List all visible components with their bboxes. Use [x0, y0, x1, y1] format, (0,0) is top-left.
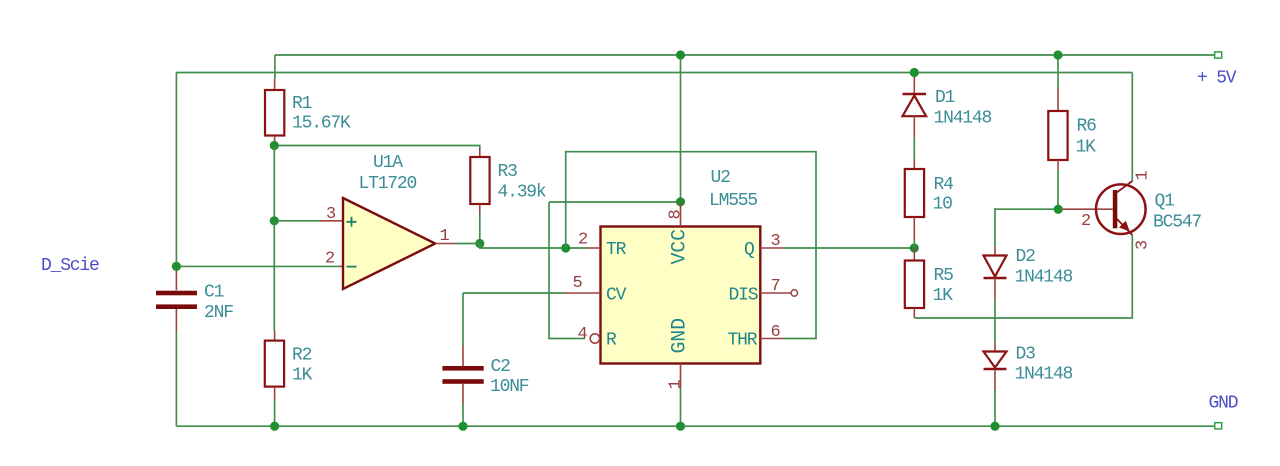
wire left column: [175, 73, 177, 267]
svg-text:LM555: LM555: [709, 191, 757, 211]
svg-text:1N4148: 1N4148: [1015, 267, 1073, 287]
junction VCC node: [676, 197, 685, 206]
junction top rail VCC: [676, 50, 685, 59]
svg-text:1K: 1K: [292, 366, 313, 386]
resistor R3: [470, 149, 489, 215]
wire Q row: [784, 247, 915, 249]
transistor Q1: [1096, 181, 1146, 235]
svg-text:LT1720: LT1720: [359, 174, 417, 194]
junction D1 rail: [910, 68, 919, 77]
pin 1 GND stub: [680, 364, 682, 389]
wire R4 to Q node: [913, 240, 915, 249]
pin 2 TR stub: [587, 247, 601, 249]
svg-text:D2: D2: [1016, 247, 1036, 267]
capacitor C2: [442, 293, 483, 426]
diode D3: [984, 343, 1007, 390]
wire output to TR: [456, 244, 587, 249]
wire base row: [995, 208, 1058, 210]
wire GND bottom rail: [176, 425, 1214, 427]
wire emitter row: [914, 235, 1132, 318]
wire second rail: [176, 72, 1132, 74]
svg-text:U2: U2: [711, 168, 731, 188]
pin base stub: [1058, 208, 1113, 210]
svg-text:10: 10: [933, 195, 953, 215]
svg-text:R1: R1: [292, 94, 312, 114]
capacitor C1: [156, 266, 197, 331]
svg-text:1K: 1K: [1076, 138, 1097, 158]
svg-text:D_Scie: D_Scie: [41, 256, 99, 276]
wire minus row: [176, 265, 339, 267]
junction R2 bottom: [270, 422, 279, 431]
svg-text:R6: R6: [1077, 117, 1097, 137]
svg-text:3: 3: [326, 205, 336, 224]
svg-text:D1: D1: [935, 88, 955, 108]
svg-text:+ 5V: + 5V: [1197, 69, 1237, 89]
svg-text:10NF: 10NF: [490, 377, 529, 397]
wire +5V top rail: [275, 54, 1215, 56]
wire reset-to-VCC row: [549, 201, 681, 203]
wire middle column to R2: [273, 221, 275, 331]
wire R2 bottom: [274, 400, 276, 426]
junction plus tap: [270, 216, 279, 225]
diode D1: [903, 73, 927, 138]
resistor R5: [905, 248, 924, 318]
wire D1 to R4: [913, 137, 915, 160]
svg-text:1: 1: [440, 227, 450, 246]
junction GND rail: [676, 422, 685, 431]
svg-text:R3: R3: [498, 162, 518, 182]
wire D3 to GND rail: [994, 390, 996, 426]
resistor R2: [265, 331, 284, 401]
wire end square GND: [1215, 423, 1222, 429]
svg-text:1N4148: 1N4148: [1015, 365, 1073, 385]
svg-text:R4: R4: [934, 175, 954, 195]
resistor R4: [905, 160, 924, 240]
wire R3 bottom to output node: [479, 214, 481, 244]
wire CV row: [463, 292, 564, 294]
wire plus row: [274, 220, 320, 222]
wire D2 column from base row: [994, 208, 996, 246]
svg-text:5: 5: [573, 274, 583, 293]
wire left column below C1: [175, 331, 177, 426]
svg-text:1: 1: [1134, 171, 1153, 181]
svg-text:2: 2: [1081, 212, 1090, 231]
junction R6 rail: [1053, 50, 1062, 59]
svg-text:GND: GND: [669, 318, 692, 353]
svg-text:15.67K: 15.67K: [292, 114, 351, 134]
svg-text:D3: D3: [1016, 345, 1036, 365]
svg-text:1N4148: 1N4148: [934, 109, 992, 129]
svg-text:THR: THR: [728, 331, 758, 351]
wire TR-THR feedback loop: [566, 152, 816, 339]
junction minus row: [172, 262, 181, 271]
svg-text:1K: 1K: [933, 286, 954, 306]
svg-text:2: 2: [578, 231, 587, 250]
junction TR node: [561, 243, 570, 252]
svg-text:2: 2: [325, 250, 334, 269]
IC U2 LM555: [601, 227, 761, 364]
wire middle column plus tap: [273, 146, 275, 221]
svg-text:BC547: BC547: [1153, 213, 1201, 233]
resistor R6: [1048, 89, 1067, 171]
wire R6 bottom to base row: [1057, 170, 1059, 209]
svg-text:VCC: VCC: [669, 229, 692, 265]
wire GND pin to rail: [680, 388, 682, 426]
junction R1 bottom: [270, 141, 279, 150]
svg-text:2NF: 2NF: [204, 303, 233, 323]
wire R1 node row to R3: [274, 146, 480, 149]
svg-text:CV: CV: [606, 286, 627, 306]
svg-text:TR: TR: [606, 240, 627, 260]
svg-text:C1: C1: [204, 283, 224, 303]
pin 3 Q stub: [760, 247, 783, 249]
pin 7 DIS stub: [760, 290, 797, 296]
svg-text:1: 1: [667, 380, 686, 390]
wire R1 top from rail: [274, 55, 276, 79]
junction output node: [475, 239, 484, 248]
junction C2 GND rail: [458, 422, 467, 431]
wire collector column: [1131, 73, 1133, 182]
plus pin name: [347, 217, 357, 227]
svg-text:R2: R2: [292, 346, 312, 366]
pin 6 THR stub: [760, 338, 783, 340]
junction base row: [1054, 205, 1063, 214]
svg-text:GND: GND: [1209, 394, 1238, 414]
svg-text:C2: C2: [491, 357, 511, 377]
wire R6 top from rail: [1057, 55, 1059, 89]
junction Q node: [910, 243, 919, 252]
svg-text:Q: Q: [744, 240, 754, 260]
svg-text:4.39k: 4.39k: [498, 183, 546, 203]
svg-text:U1A: U1A: [373, 153, 403, 173]
pin 8 VCC stub: [680, 202, 682, 227]
wire end square +5V: [1215, 52, 1222, 58]
pin 4 R stub with bubble: [574, 334, 600, 343]
svg-text:R: R: [606, 331, 617, 351]
pin 5 CV stub: [564, 292, 601, 294]
junction D3 GND rail: [990, 422, 999, 431]
wire reset column: [549, 202, 574, 339]
diode D2: [984, 246, 1007, 299]
svg-text:3: 3: [771, 232, 781, 251]
svg-text:8: 8: [667, 210, 686, 220]
svg-text:4: 4: [578, 325, 588, 344]
resistor R1: [265, 79, 284, 146]
op-amp U1A: [320, 198, 456, 289]
svg-text:Q1: Q1: [1155, 191, 1175, 211]
svg-text:R5: R5: [934, 266, 954, 286]
svg-text:3: 3: [1134, 240, 1153, 250]
minus pin name: [347, 266, 357, 268]
wire D2 to D3: [994, 299, 996, 343]
wire VCC branch: [680, 55, 682, 202]
svg-text:7: 7: [771, 277, 780, 296]
svg-text:DIS: DIS: [729, 286, 758, 306]
svg-text:6: 6: [771, 323, 781, 342]
